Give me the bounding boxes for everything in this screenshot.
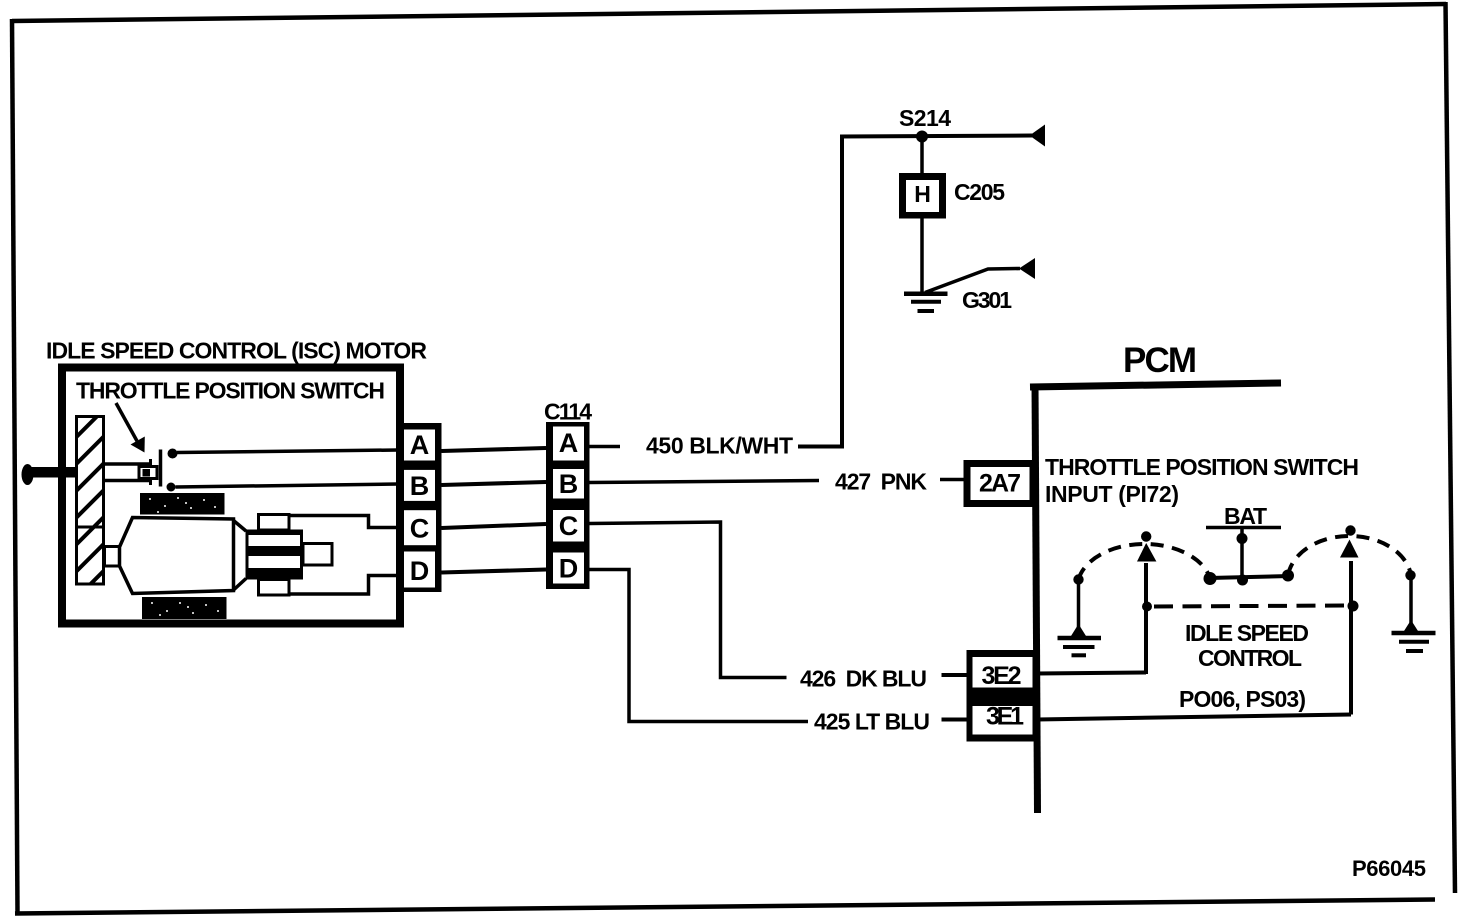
svg-text:2A7: 2A7 — [979, 470, 1021, 498]
right arc end dot — [1405, 570, 1415, 580]
right coil dashed arc — [1288, 536, 1411, 576]
wire motor A to C114 A — [442, 448, 547, 451]
motor body right chamfers — [234, 521, 247, 591]
PCM pin 3E2 box — [967, 650, 1039, 742]
wire C114 C with riser — [590, 522, 787, 678]
armature solid line — [1209, 576, 1290, 578]
svg-text:THROTTLE POSITION SWITCH: THROTTLE POSITION SWITCH — [1045, 454, 1359, 480]
wire 450 vertical riser — [798, 137, 842, 447]
wire C114 A stub — [590, 445, 621, 449]
gear top tab — [259, 515, 290, 531]
switch contact block — [139, 467, 157, 479]
page border left — [12, 19, 18, 913]
gear bottom tab — [259, 580, 290, 596]
svg-text:D: D — [410, 556, 430, 586]
BAT feed stem — [1240, 529, 1244, 580]
svg-text:C: C — [410, 514, 430, 544]
page border top — [12, 4, 1446, 21]
wire motor C to C114 C — [442, 524, 547, 528]
wire C114 B to 427 label — [590, 481, 820, 483]
wire 427 to 2A7 — [940, 478, 964, 482]
svg-text:425 LT BLU: 425 LT BLU — [814, 709, 930, 735]
left solenoid arrow — [1137, 543, 1156, 562]
armature dot right — [1282, 570, 1294, 582]
svg-text:G301: G301 — [962, 287, 1012, 313]
wire C114 D with riser — [590, 570, 809, 722]
svg-text:THROTTLE POSITION SWITCH: THROTTLE POSITION SWITCH — [76, 378, 385, 404]
motor coil top — [140, 493, 225, 515]
PCM right ground symbol — [1392, 633, 1436, 651]
connector C205 cavity H box — [899, 173, 946, 219]
svg-text:C: C — [559, 511, 579, 541]
shaft ball — [22, 464, 34, 485]
left coil dashed arc — [1079, 544, 1211, 580]
page border bottom — [15, 900, 1435, 914]
svg-text:C205: C205 — [954, 179, 1005, 205]
left ground stem — [1077, 580, 1081, 637]
switch lever — [159, 450, 163, 487]
right arc peak dot — [1345, 525, 1355, 535]
left ground stem foot — [1071, 624, 1086, 636]
right ground stem — [1409, 575, 1413, 631]
wire C205 to G301 — [920, 219, 924, 293]
svg-text:CONTROL: CONTROL — [1198, 645, 1302, 671]
motor bearing neck — [105, 547, 121, 567]
svg-text:427 PNK: 427 PNK — [835, 469, 927, 495]
idle speed control label — [1185, 620, 1309, 671]
BAT stem dot top — [1237, 533, 1248, 544]
svg-text:INPUT (PI72): INPUT (PI72) — [1045, 481, 1179, 507]
PCM pin 2A7 box — [964, 460, 1037, 507]
worm gear — [246, 530, 304, 580]
housing outline bottom — [289, 576, 398, 595]
svg-text:A: A — [410, 430, 430, 460]
wire switch to pin A — [177, 450, 398, 453]
armature dot left — [1204, 572, 1217, 585]
junction dot S214 — [916, 131, 928, 143]
svg-text:PO06, PS03): PO06, PS03) — [1179, 686, 1306, 712]
svg-text:A: A — [559, 428, 579, 458]
svg-text:B: B — [410, 471, 430, 501]
svg-text:BAT: BAT — [1224, 503, 1267, 529]
svg-text:3E2: 3E2 — [982, 662, 1022, 690]
wire motor D to C114 D — [442, 570, 547, 573]
PCM top bar — [1030, 383, 1281, 387]
wire 3E1 to right solenoid — [1037, 715, 1351, 720]
dashed link line — [1154, 606, 1348, 607]
BAT stem dot bottom — [1237, 575, 1248, 586]
right solenoid stem — [1349, 561, 1353, 715]
svg-text:D: D — [559, 554, 579, 584]
housing outline top — [289, 516, 398, 528]
svg-text:IDLE SPEED: IDLE SPEED — [1185, 620, 1309, 646]
wire S214 to C205 — [920, 137, 924, 175]
switch contact dot B — [167, 483, 176, 492]
off-page arrow right of S214 — [1030, 125, 1046, 147]
left arc start dot — [1073, 574, 1083, 584]
PCM pin 3E1 box — [973, 706, 1033, 735]
off-page arrow right of G301 — [1019, 258, 1035, 279]
PCM left ground symbol — [1058, 638, 1102, 655]
wire switch to pin B — [176, 484, 399, 487]
pointer arrow to switch — [116, 403, 145, 453]
PCM left vertical bar — [1035, 384, 1038, 814]
wire 425 to 3E1 — [942, 718, 968, 722]
svg-text:PCM: PCM — [1123, 341, 1197, 380]
right solenoid arrow — [1340, 540, 1359, 558]
svg-text:IDLE SPEED CONTROL (ISC) MOTOR: IDLE SPEED CONTROL (ISC) MOTOR — [46, 338, 427, 364]
connector C114 column — [546, 422, 590, 589]
left arc peak dot — [1141, 531, 1151, 541]
wire 426 to 3E2 — [942, 673, 968, 677]
svg-text:S214: S214 — [899, 105, 951, 131]
svg-text:C114: C114 — [544, 399, 592, 425]
dot on left stem — [1142, 602, 1152, 612]
svg-text:426 DK BLU: 426 DK BLU — [800, 666, 927, 692]
dashed link end dot — [1348, 601, 1359, 612]
throttle position switch input label — [1045, 454, 1359, 507]
ISC motor box — [62, 368, 400, 624]
page border right — [1446, 2, 1456, 893]
svg-text:B: B — [559, 469, 579, 499]
wire motor B to C114 B — [442, 482, 547, 485]
plunger rod — [105, 459, 152, 485]
svg-text:H: H — [914, 181, 931, 207]
motor body — [120, 518, 234, 594]
BAT underline — [1206, 526, 1281, 530]
motor connector pins column — [397, 423, 442, 592]
wire 3E2 to left solenoid — [1037, 673, 1146, 674]
gear output shaft — [303, 544, 332, 566]
ground G301 symbol — [904, 294, 948, 311]
left solenoid stem — [1144, 563, 1148, 674]
wire S214 horizontal — [840, 136, 1032, 137]
wire G301 branch diagonal — [925, 269, 1020, 293]
svg-text:450 BLK/WHT: 450 BLK/WHT — [646, 433, 793, 459]
motor coil bottom — [142, 597, 227, 619]
hatched mounting wall — [75, 417, 105, 585]
shaft — [30, 467, 105, 478]
svg-text:P66045: P66045 — [1352, 856, 1426, 881]
switch contact dot A — [168, 449, 178, 459]
right ground stem foot — [1404, 620, 1418, 631]
svg-text:3E1: 3E1 — [986, 703, 1024, 731]
